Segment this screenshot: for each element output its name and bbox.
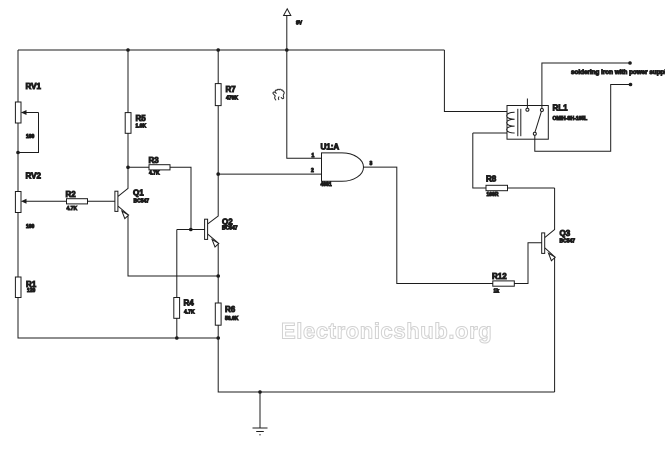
wire top rail down to relay coil top <box>444 50 507 112</box>
wire 9V rail down to gate pin 1 <box>287 50 322 158</box>
node Q2 base junction <box>189 228 193 232</box>
svg-text:Q3: Q3 <box>560 229 571 238</box>
wire RV2 bottom to R1 top <box>17 213 19 278</box>
svg-text:soldering iron with power supp: soldering iron with power supply <box>571 69 665 76</box>
wire R1 bottom to lower-left rail <box>18 298 177 339</box>
node R4 bottom junction <box>175 336 179 340</box>
wire Q2 base <box>177 229 205 231</box>
svg-text:R4: R4 <box>184 299 195 308</box>
svg-text:4.7K: 4.7K <box>184 310 195 316</box>
wire R2 to Q1 base <box>88 200 116 202</box>
node soldering iron terminal 2 <box>629 83 633 87</box>
wire RV1 bottom to RV2 top <box>17 123 19 192</box>
wire gate output pin 3 to R12 <box>364 167 493 283</box>
wire top rail <box>18 49 444 51</box>
svg-text:120: 120 <box>27 288 36 294</box>
relay switch arm <box>535 112 542 133</box>
svg-text:RV1: RV1 <box>26 82 42 91</box>
svg-text:100R: 100R <box>487 192 499 198</box>
node RV1 wiper junction <box>16 151 20 155</box>
op-amp U1:A AND gate 4081 <box>311 143 373 189</box>
svg-text:BC547: BC547 <box>560 239 576 245</box>
resistor R7 <box>215 50 238 174</box>
svg-text:Q1: Q1 <box>133 189 144 198</box>
svg-text:2: 2 <box>311 168 314 174</box>
svg-text:100: 100 <box>26 134 35 140</box>
svg-text:BC547: BC547 <box>134 199 150 205</box>
wire relay common to soldering iron terminal 2 <box>535 85 631 152</box>
transistor Q3 <box>542 188 576 392</box>
coil core lines <box>517 109 519 136</box>
svg-text:1.0K: 1.0K <box>136 124 147 130</box>
svg-text:3: 3 <box>370 161 373 167</box>
resistor R8 <box>473 133 555 198</box>
svg-text:R6: R6 <box>225 305 236 314</box>
resistor R2 <box>66 190 88 212</box>
resistor R1 <box>15 277 36 298</box>
power 9V terminal <box>284 9 303 50</box>
potentiometer RV1 <box>15 82 41 153</box>
svg-text:4.7K: 4.7K <box>149 171 160 177</box>
svg-text:470K: 470K <box>226 96 238 102</box>
svg-text:1: 1 <box>312 153 315 159</box>
resistor R5 <box>125 50 146 167</box>
relay common contact <box>533 132 536 135</box>
svg-text:RV2: RV2 <box>26 172 42 181</box>
svg-text:R8: R8 <box>486 175 497 184</box>
hand cursor icon <box>273 89 284 100</box>
svg-text:4.7K: 4.7K <box>67 206 78 212</box>
svg-text:R2: R2 <box>66 190 77 199</box>
node junction top rail / R7 <box>216 48 220 52</box>
relay NO contact <box>540 109 543 112</box>
resistor R6 <box>215 276 238 338</box>
node R7 / Q2 collector / gate pin2 junction <box>216 172 220 176</box>
svg-text:R3: R3 <box>149 156 160 165</box>
svg-text:1k: 1k <box>494 289 500 295</box>
relay top stub <box>526 99 528 109</box>
wire gate pin 2 <box>218 173 321 175</box>
node ground junction on bottom rail <box>258 390 262 394</box>
resistor R12 <box>492 243 542 295</box>
svg-text:OMIH-SH-105L: OMIH-SH-105L <box>553 116 588 122</box>
ground <box>253 392 268 435</box>
wire relay coil bottom lead <box>473 132 507 134</box>
svg-text:Electronicshub.org: Electronicshub.org <box>281 319 492 344</box>
coil arcs <box>507 112 515 133</box>
node R6 bottom junction <box>216 336 220 340</box>
svg-text:100: 100 <box>26 224 35 230</box>
svg-text:U1:A: U1:A <box>321 143 340 152</box>
potentiometer RV2 <box>15 172 66 231</box>
node soldering iron terminal 1 <box>628 61 632 65</box>
resistor R4 <box>174 230 195 339</box>
transistor Q1 <box>115 168 218 277</box>
resistor R3 <box>128 156 191 230</box>
relay RL1 <box>507 99 588 140</box>
svg-text:9V: 9V <box>296 21 303 27</box>
svg-text:R7: R7 <box>226 85 237 94</box>
node junction top rail / R5 <box>126 48 130 52</box>
svg-text:4081: 4081 <box>321 182 332 188</box>
wire relay NO contact up to supply terminal <box>542 63 630 109</box>
node junction top rail / 9V <box>285 48 289 52</box>
node Q1 collector / R5 / R3 junction <box>126 166 130 170</box>
svg-text:R12: R12 <box>492 272 507 281</box>
wire lower rail R4 to R6 <box>177 337 218 339</box>
transistor Q2 <box>205 174 238 276</box>
svg-text:BC547: BC547 <box>222 226 238 232</box>
svg-text:RL1: RL1 <box>553 104 569 113</box>
wire down to bottom rail <box>218 338 554 392</box>
node Q1 emitter / Q2 emitter / R6 junction <box>216 274 220 278</box>
svg-text:56.0K: 56.0K <box>225 316 239 322</box>
wire left rail (top) <box>17 50 19 102</box>
svg-text:R5: R5 <box>136 114 147 123</box>
